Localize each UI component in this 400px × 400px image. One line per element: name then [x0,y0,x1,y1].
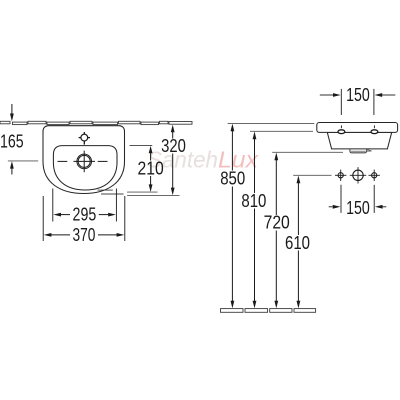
drain box [350,149,367,153]
dimension line 720 [275,160,277,303]
svg-text:150: 150 [346,85,370,105]
watermark SantehLux [147,147,260,173]
basin inner outline [53,146,117,190]
basin outer outline [43,126,125,194]
basin rim bar [317,123,398,133]
tick line 720 [272,151,343,153]
dimension 320 [172,131,174,189]
basin body trapezoid [327,132,391,149]
svg-text:850: 850 [220,169,245,189]
320 bottom tick [127,194,179,196]
outer bottom extension dash [101,193,124,195]
svg-text:320: 320 [161,136,186,156]
dimension 295 [61,214,109,216]
rim fixing ellipses [338,130,378,134]
dimension line 850 [231,131,233,303]
mounting hole small right [369,170,380,181]
svg-text:150: 150 [346,198,370,218]
inner bottom extension dash [98,189,113,191]
dimension 165 [8,160,38,162]
mounting hole large [350,167,366,183]
extension lines 370 [42,196,44,241]
dimension line 810 [254,139,256,303]
drain hole [58,151,108,173]
dimension 150 top [320,89,396,115]
dimension line 610 [297,183,299,303]
svg-text:210: 210 [138,158,164,178]
drain centerline dashes [58,160,68,162]
svg-text:720: 720 [264,213,290,233]
svg-text:810: 810 [241,191,266,211]
rim ellipse ticks [341,125,374,128]
faucet hole [79,132,90,145]
floor hatch segments [221,309,316,313]
tick line 850 [228,122,315,124]
mounting hole small left [335,170,346,181]
drain wedge [367,149,372,151]
svg-text:295: 295 [73,204,97,224]
dimension 210 [130,145,153,147]
svg-text:165: 165 [0,131,24,151]
wall hatch segments [0,121,192,124]
svg-text:370: 370 [72,225,95,245]
tick line 810 [250,130,313,132]
dimension 150 bottom [329,185,387,213]
tick line 610 [293,174,331,176]
svg-text:610: 610 [285,233,310,253]
extension lines 295 [52,189,54,222]
dimension 370 [51,234,117,236]
